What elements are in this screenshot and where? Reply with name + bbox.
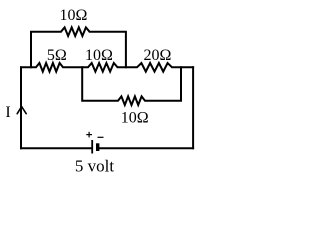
svg-text:I: I (5, 104, 10, 121)
svg-text:5 volt: 5 volt (75, 157, 114, 176)
svg-text:10Ω: 10Ω (85, 47, 113, 64)
svg-text:20Ω: 20Ω (144, 47, 172, 64)
svg-text:10Ω: 10Ω (121, 109, 149, 126)
svg-text:10Ω: 10Ω (60, 7, 88, 24)
svg-text:5Ω: 5Ω (47, 47, 67, 64)
